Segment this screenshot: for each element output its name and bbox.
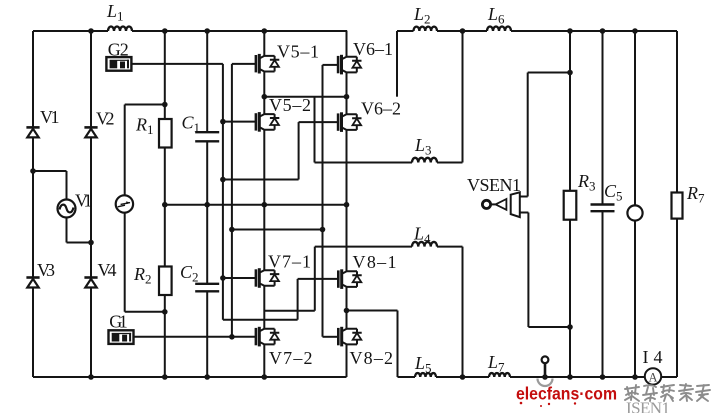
wire meter branch top [125, 104, 165, 106]
wire bottom rail L5 to L7 [436, 376, 489, 378]
svg-text:R2: R2 [133, 264, 152, 287]
svg-text:V4: V4 [98, 260, 117, 280]
wire VSEN bottom link [528, 326, 570, 328]
wire V8-1 gate [298, 278, 339, 280]
wire V8 midpoint link [347, 310, 398, 312]
AC source V1 [58, 200, 76, 218]
svg-text:elecfans·com: elecfans·com [516, 384, 617, 404]
diode V2 [84, 127, 97, 137]
svg-text:R7: R7 [686, 183, 705, 206]
terminal post [542, 356, 549, 377]
wire gate bus B [231, 64, 233, 337]
junction bottom x602.5 [600, 374, 606, 380]
wire VSEN bottom drop [527, 213, 529, 328]
wire R1 top lead [164, 31, 166, 119]
watermark CJK script [625, 384, 710, 401]
wire V6-2 source down [346, 130, 348, 271]
svg-text:R3: R3 [577, 171, 596, 194]
inductor L5 [415, 373, 436, 377]
transistor V7-1 [256, 268, 279, 288]
junction top rail x635 [632, 28, 638, 34]
sensor VSEN1 [482, 192, 528, 217]
junction bottom x462.5 [460, 374, 466, 380]
wire VSEN top riser [527, 73, 529, 197]
svg-text:G2: G2 [108, 40, 129, 60]
svg-text:V8–1: V8–1 [353, 252, 397, 272]
wire V7 midpoint [263, 286, 265, 329]
wire L4 left [315, 246, 412, 248]
svg-text:V7–2: V7–2 [269, 348, 313, 368]
svg-text:VSEN1: VSEN1 [467, 175, 521, 195]
inductor L6 [487, 27, 511, 32]
wire bottom rail L5 segment [398, 376, 416, 378]
wire V5-2 source down [263, 130, 265, 271]
junction top rail x91 [88, 28, 94, 34]
junction bus C y229.5 [320, 227, 326, 233]
capacitor C5 [591, 205, 615, 212]
svg-text:A: A [648, 371, 657, 385]
gate drive G1 [109, 330, 134, 344]
svg-text:L4: L4 [413, 224, 431, 247]
junction V8 midpoint [344, 308, 350, 314]
wire V4 to bottom rail [90, 289, 92, 378]
wire V8-2 source lead [346, 344, 348, 377]
svg-text:V6–1: V6–1 [353, 39, 393, 59]
resistor R1 [159, 119, 172, 148]
junction bottom x570 [567, 374, 573, 380]
watermark arc [538, 379, 553, 387]
wire V5-1 drain lead [263, 31, 265, 56]
junction x91 y242.5 [88, 240, 94, 246]
diode V4 [84, 278, 97, 288]
wire V5-V6 midpoint link [264, 96, 346, 98]
wire V6-1 gate [323, 64, 339, 66]
wire top rail L2 to L6 [437, 30, 487, 32]
junction bus A y278 [220, 275, 226, 281]
wire bottom rail L7 to I4 [510, 376, 645, 378]
svg-text:V5–1: V5–1 [277, 42, 319, 62]
wire L3 left [315, 162, 413, 164]
wire L4 tap riser [314, 247, 316, 311]
junction bottom x206.6 [204, 374, 210, 380]
junction bus B y229.5 [229, 227, 235, 233]
meter V1 left [116, 195, 133, 212]
wire bottom rail I4 to corner [661, 376, 677, 378]
svg-text:V3: V3 [37, 260, 55, 280]
wire L4 right [437, 246, 463, 248]
junction bottom x635 [632, 374, 638, 380]
wire source branch bottom [66, 218, 68, 243]
watermark drips [520, 402, 577, 407]
gate drive G2 [106, 57, 131, 71]
wire V6-2 gate [299, 121, 339, 123]
wire V7 midpoint stub [264, 310, 315, 312]
svg-text:L2: L2 [413, 4, 431, 27]
wire C1 to C2 [206, 141, 208, 283]
wire L4 drop to bottom rail [462, 247, 464, 377]
junction node N x346.5 [344, 202, 350, 208]
capacitor C2 [195, 284, 219, 292]
wire meter branch down [124, 105, 126, 196]
svg-text:V5–2: V5–2 [269, 95, 311, 115]
wire L2 riser [396, 31, 398, 97]
junction node N x264.3 [262, 202, 268, 208]
wire C1 top lead [206, 31, 208, 132]
wire V6-1 drain lead [346, 31, 348, 57]
junction top rail x164.5 [162, 28, 168, 34]
wire top rail L1 to V6-1 drain [132, 30, 347, 32]
wire source branch top [33, 170, 67, 172]
svg-text:V8–2: V8–2 [350, 348, 394, 368]
ammeter I4 [645, 368, 661, 384]
wire R3 top lead [569, 31, 571, 191]
wire L3 riser to top rail [462, 31, 464, 163]
svg-text:R1: R1 [135, 115, 154, 138]
wire left rail upper [32, 31, 34, 127]
junction x164.5 y204.7 [162, 202, 168, 208]
junction x570 y72.5 [567, 70, 573, 76]
wire bus A bottom jog [223, 319, 298, 321]
wire left rail lower [32, 289, 34, 378]
junction top rail x570 [567, 28, 573, 34]
junction top rail x602.5 [600, 28, 606, 34]
resistor R2 [159, 267, 172, 296]
meter circle [627, 205, 642, 220]
wire node N y204.7 [165, 204, 347, 206]
junction V6 midpoint [344, 94, 350, 100]
wire V6 midpoint [346, 72, 348, 114]
svg-text:C2: C2 [180, 262, 199, 285]
junction V5 midpoint [262, 94, 268, 100]
wire G1 output [134, 336, 257, 338]
wire left rail mid [32, 139, 34, 278]
transistor V5-2 [256, 112, 279, 132]
wire gate bus C [322, 65, 324, 337]
transistor V8-1 [338, 269, 361, 289]
svg-text:G1: G1 [109, 311, 128, 331]
wire C2 to bottom [206, 291, 208, 377]
junction bus A y179.5 [220, 177, 226, 183]
wire V8-2 gate [323, 336, 339, 338]
wire L3 right [437, 162, 463, 164]
inductor L1 [108, 27, 132, 32]
wire V7-2 source lead [263, 344, 265, 377]
diode V3 [26, 278, 39, 288]
wire top-right rail start [397, 30, 414, 32]
wire source branch down [66, 171, 68, 200]
svg-text:V6–2: V6–2 [361, 99, 401, 119]
inductor L7 [489, 373, 510, 377]
wire gate bus A [222, 64, 224, 320]
transistor V6-1 [338, 55, 361, 75]
wire C5 top lead [602, 31, 604, 205]
wire bottom-left rail [33, 376, 347, 378]
capacitor C1 [195, 132, 219, 141]
wire V5 midpoint [263, 72, 265, 115]
wire bus A to V6-2 gate jog [223, 179, 299, 181]
junction bottom x545 [542, 374, 548, 380]
svg-text:L5: L5 [414, 353, 432, 376]
wire source to V2 branch [67, 242, 92, 244]
wire R1 to R2 [164, 148, 166, 267]
junction top rail x462.5 [460, 28, 466, 34]
wire V2 branch mid [90, 139, 92, 278]
transistor V5-1 [256, 54, 279, 74]
wire V8-1 gate riser [297, 279, 299, 320]
junction R1 branch y104.5 [162, 102, 168, 108]
junction left rail x33 y171 [30, 168, 36, 174]
junction bottom x264.3 [262, 374, 268, 380]
wire L3 tap riser [314, 97, 316, 163]
wire top-left rail [33, 30, 108, 32]
junction bus A y121.6 [220, 119, 226, 125]
wire R3 bottom lead [569, 220, 571, 377]
wire V5-2 gate [223, 121, 256, 123]
svg-text:V1: V1 [75, 191, 93, 211]
resistor R7 [672, 193, 683, 219]
transistor V7-2 [256, 327, 279, 347]
wire R7 top lead [676, 31, 678, 193]
wire V8 midpoint [346, 287, 348, 329]
wire V2 branch upper [90, 31, 92, 127]
wire bus B to bus C y229.5 [232, 229, 323, 231]
svg-text:L7: L7 [487, 352, 505, 375]
junction x206.6 y204.7 [204, 202, 210, 208]
junction top rail x206.6 [204, 28, 210, 34]
inductor L4 [412, 242, 437, 247]
svg-text:L3: L3 [414, 135, 432, 158]
wire meter to R2 bottom [125, 311, 165, 313]
wire V7-1 gate [223, 277, 256, 279]
junction top rail x264.3 [262, 28, 268, 34]
transistor V6-2 [338, 112, 361, 132]
junction x164.5 y311.8 [162, 309, 168, 315]
svg-text:I 4: I 4 [643, 347, 663, 367]
wire top rail L6 to R7 corner [511, 30, 677, 32]
svg-text:C1: C1 [182, 113, 201, 136]
wire R7 bottom lead [676, 219, 678, 377]
svg-text:L6: L6 [487, 4, 505, 27]
wire R2 to bottom [164, 295, 166, 377]
svg-text:L1: L1 [106, 1, 124, 24]
wire meter branch lower [124, 213, 126, 312]
junction x570 y327 [567, 324, 573, 330]
inductor L2 [414, 27, 438, 31]
wire V6-2 gate jog up [298, 122, 300, 179]
wire G2 output [131, 63, 223, 65]
svg-text:V1: V1 [40, 107, 60, 127]
wire meter2 top lead [634, 31, 636, 206]
inductor L3 [412, 158, 437, 163]
junction bottom x91 [88, 374, 94, 380]
wire V5-1 gate feed [232, 63, 256, 65]
junction G1 wire y336.8 [229, 334, 235, 340]
svg-text:V7–1: V7–1 [268, 252, 311, 272]
diode V1 [26, 127, 39, 137]
junction bottom x164.5 [162, 374, 168, 380]
wire C5 bottom lead [602, 211, 604, 377]
wire VSEN top link [528, 72, 570, 74]
wire V8 mid drop [397, 311, 399, 378]
svg-text:C5: C5 [604, 181, 623, 204]
resistor R3 [564, 191, 577, 220]
wire meter2 bottom lead [634, 221, 636, 377]
svg-text:V2: V2 [96, 109, 115, 129]
transistor V8-2 [338, 327, 361, 347]
